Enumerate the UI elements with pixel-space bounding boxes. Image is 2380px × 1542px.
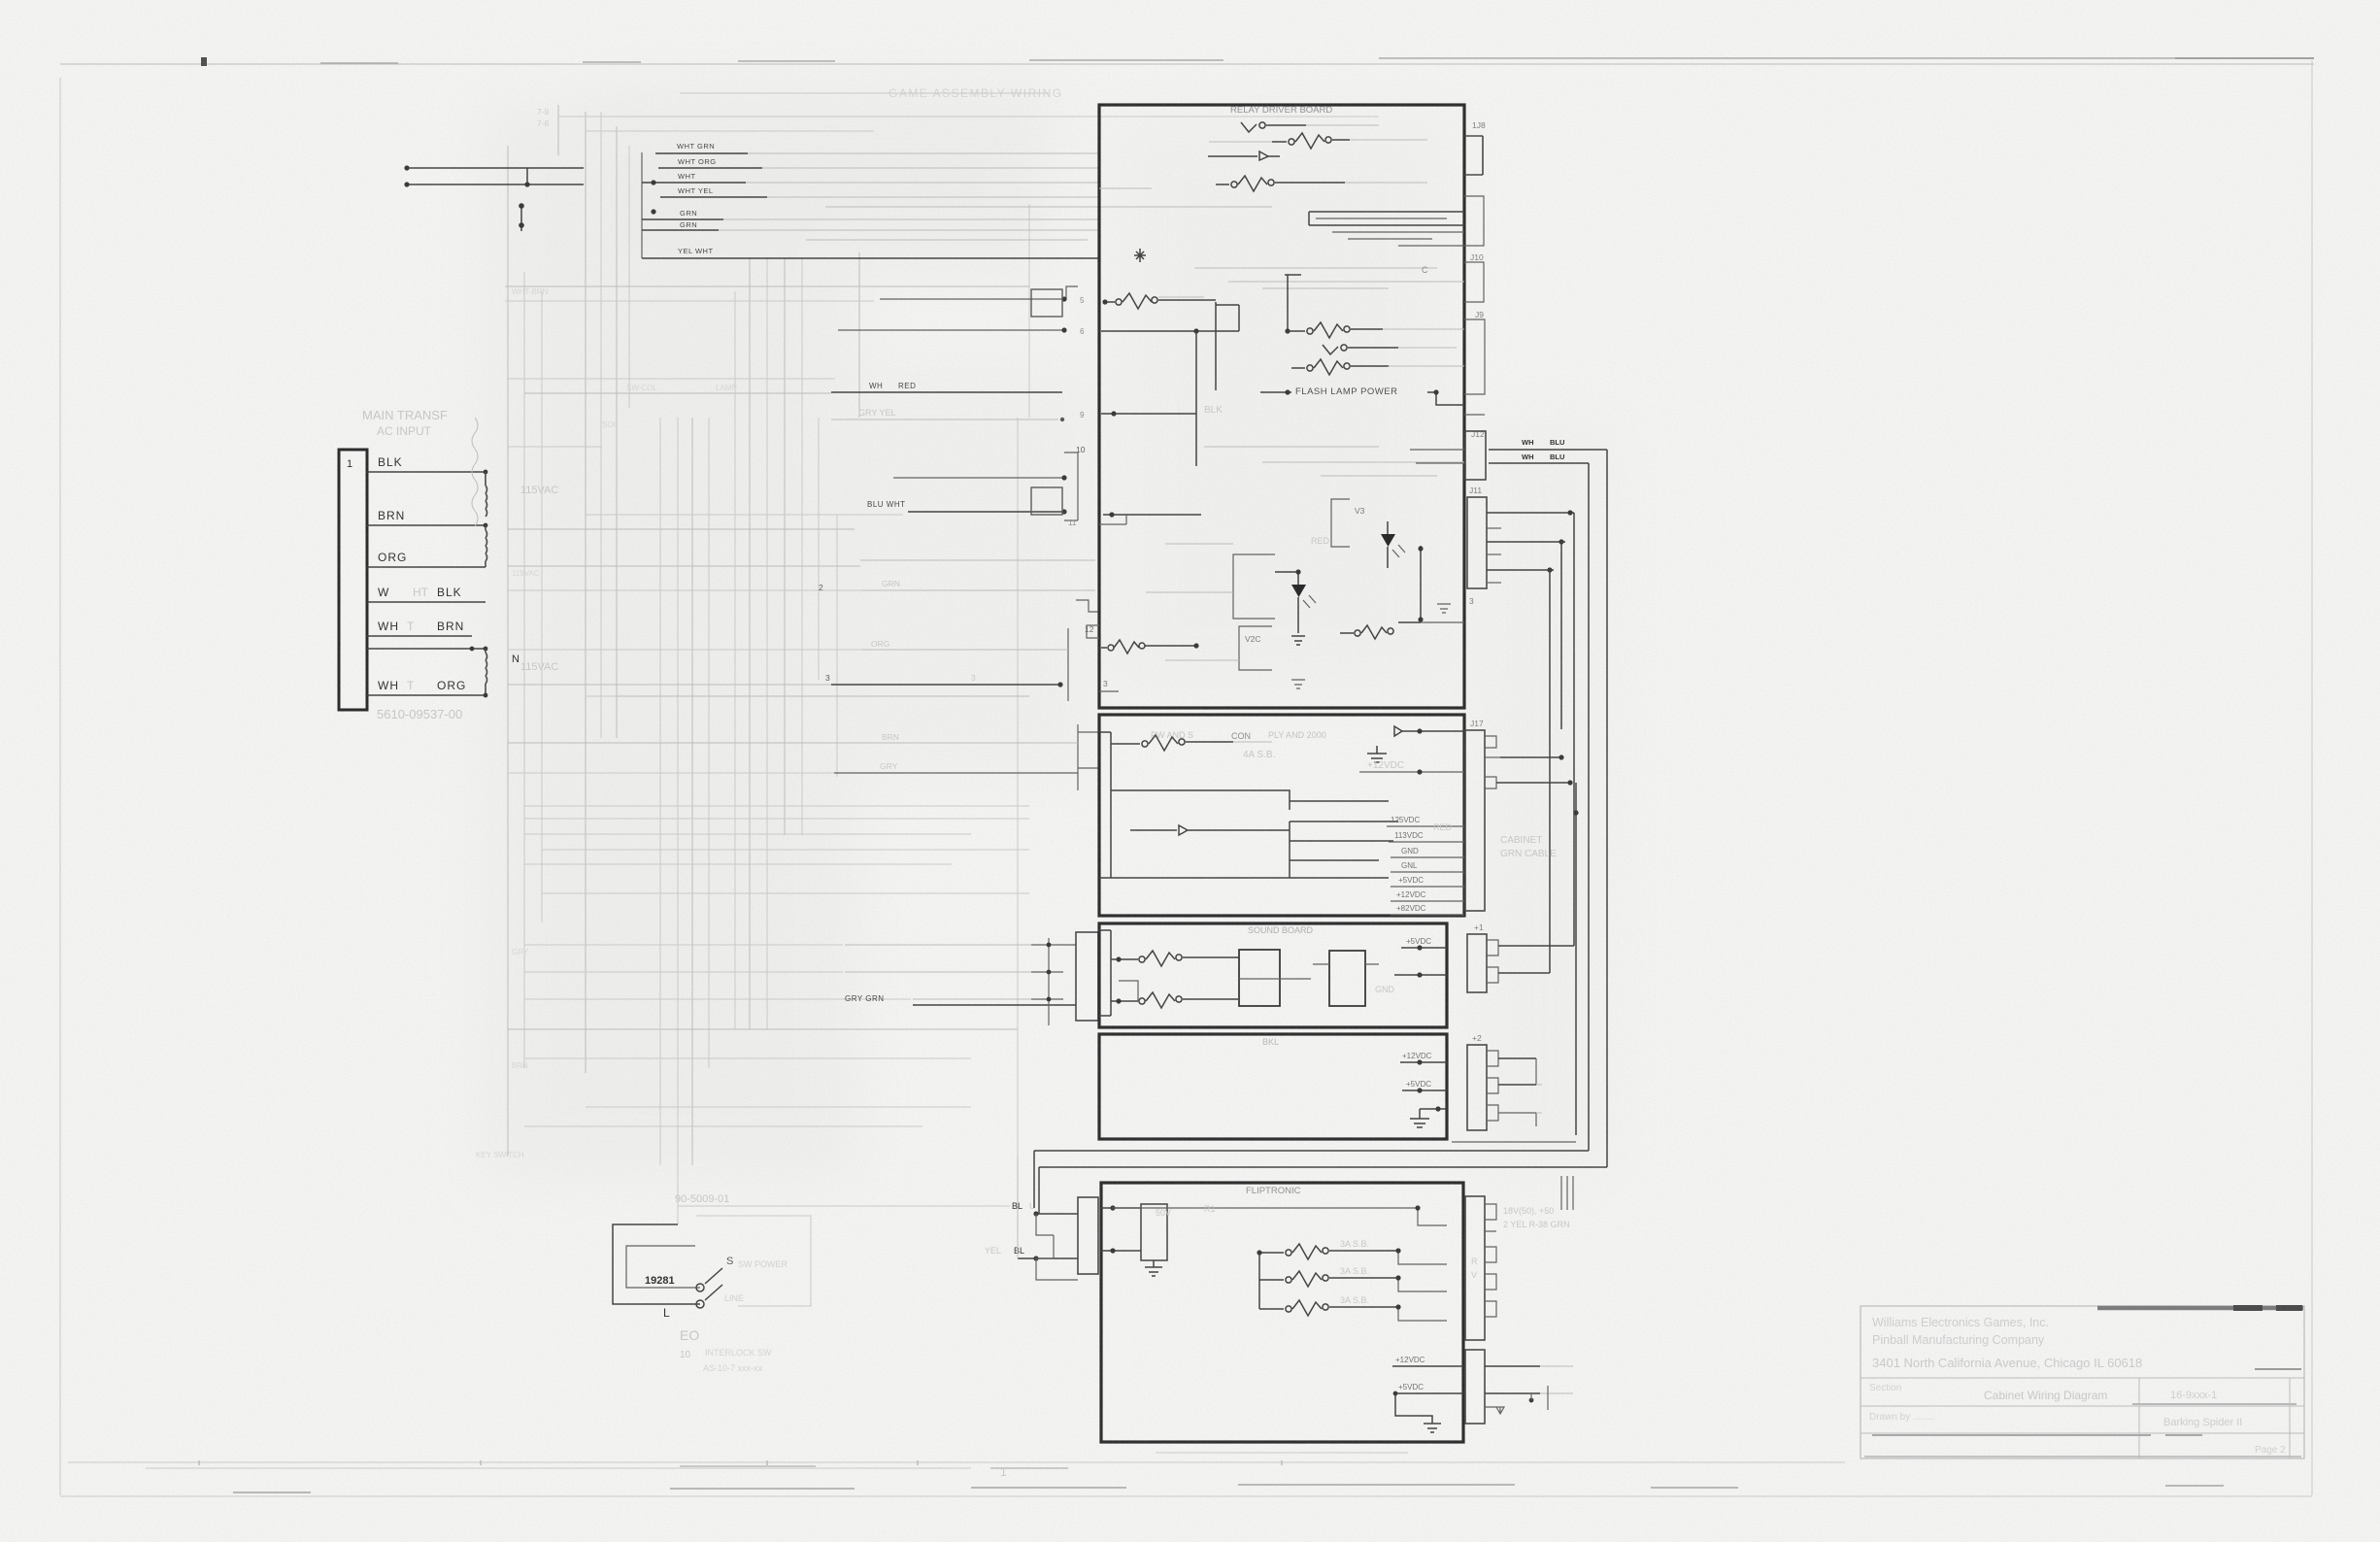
vertical node at right [1420, 546, 1422, 622]
left rail [1099, 732, 1111, 878]
J17 hook pins [1485, 736, 1496, 748]
left rail stub [1099, 930, 1111, 1016]
fuse F10 [1139, 956, 1145, 962]
fliptronic right connector [1465, 1196, 1485, 1340]
arrow pin [1394, 726, 1464, 736]
fuse F5 [1323, 345, 1338, 354]
border top line [60, 63, 2314, 65]
fuse F11 [1139, 998, 1145, 1004]
board boxes [1087, 105, 1464, 1442]
faint vertical from top [1017, 1156, 1019, 1258]
LED V3 bracket [1331, 499, 1350, 547]
wire row into opto [1103, 514, 1201, 516]
faint right extensions [1540, 1366, 1573, 1393]
ground G4 [1367, 746, 1387, 762]
row line 3 [1860, 1432, 2304, 1434]
fuse F4 [1288, 330, 1305, 332]
fuse bus vertical [1258, 1253, 1260, 1309]
bridge rect B1 [1239, 950, 1280, 1006]
ground G2 [1437, 604, 1451, 613]
fuse F2 [1272, 141, 1287, 143]
outer loop wire [613, 1224, 700, 1304]
diode D4 [1130, 825, 1290, 835]
+12V row [1359, 771, 1464, 773]
wire WHT-BLK [367, 601, 486, 603]
fuse F13 [1259, 1279, 1284, 1281]
power driver board U1 outline [1099, 105, 1464, 708]
small stub [1099, 515, 1126, 524]
cross symbol [1134, 249, 1146, 262]
connector J8 [1464, 136, 1483, 175]
branch tee [1285, 275, 1301, 331]
interlock switch [613, 1193, 811, 1373]
vertical run outer [1606, 450, 1608, 1167]
fuse F12 [1259, 1252, 1284, 1254]
vertical run inner [1588, 463, 1590, 1151]
junction into rows [1111, 877, 1290, 879]
faint bus grid [476, 105, 1078, 1224]
fuse F6 [1307, 365, 1313, 371]
scan tone patches [0, 0, 1, 1]
ground hook G7 [1395, 1393, 1432, 1424]
right side routing [1034, 120, 1607, 1424]
faint rows mid [860, 559, 1095, 561]
wire WHT-BRN [367, 635, 472, 637]
border tick mark [201, 57, 207, 66]
left-of-board wires [819, 286, 1099, 1280]
power supply board U3 outline [1099, 715, 1464, 916]
J11 pin wires [1487, 512, 1574, 514]
fliptronic board U6 outline [1101, 1183, 1463, 1442]
lower-left entering wires [1101, 413, 1196, 415]
hook wires around connector [1036, 1214, 1078, 1280]
opto rect U2 [1233, 554, 1275, 619]
row line 1 [1860, 1377, 2304, 1379]
cpu board U5 outline [1099, 1034, 1447, 1139]
entry wires [1101, 1207, 1141, 1209]
vertical drops [1573, 513, 1575, 946]
switch S1 lower contact [696, 1300, 704, 1308]
faint enclosure right [696, 1216, 811, 1306]
bracket into box mid [1076, 600, 1099, 612]
ground G1 [1291, 636, 1305, 645]
fuse F8 [1101, 647, 1107, 649]
ground G6 [1145, 1260, 1162, 1276]
continuation squiggle [472, 418, 478, 526]
wire hook into J3 [880, 286, 1078, 299]
title block [1860, 1306, 2304, 1458]
diode triangle D2 [1381, 534, 1395, 547]
switch S1 upper contact [696, 1284, 704, 1291]
bottom return lines above fliptronic [1491, 1150, 1589, 1152]
wire BRN [367, 524, 486, 526]
box2 left connector [1077, 724, 1079, 790]
continuation drop [1575, 783, 1577, 1135]
output line bundle [1309, 212, 1464, 225]
wire row 2 [1111, 790, 1389, 810]
resistor R1 [1116, 299, 1122, 305]
faint long lines into board [680, 93, 1379, 117]
faint bottom line [68, 1461, 1845, 1463]
node vertical V1 [1215, 302, 1217, 390]
diode D1 arrow [1208, 151, 1280, 160]
left stub rect [1087, 625, 1099, 638]
secondary coil [486, 649, 487, 695]
paper texture overlay [0, 0, 1, 1]
wire ORG [367, 566, 486, 568]
connector J4 bracket [1067, 628, 1069, 701]
box3 left connector column [1048, 938, 1050, 1025]
wire BLK [367, 471, 486, 473]
border right line [2311, 60, 2313, 1495]
cap rect B2 [1329, 951, 1365, 1006]
fuse F1 [1241, 122, 1257, 132]
vertical bus lines [507, 146, 509, 1156]
fuse F9 [1111, 743, 1140, 745]
vertical drop from row [1195, 331, 1197, 466]
ground G3 [1291, 680, 1305, 688]
fuse F14 [1259, 1308, 1284, 1310]
border bottom line [60, 1495, 2312, 1497]
box5 left connector [1078, 1197, 1098, 1274]
wire into J6 pin a [893, 477, 1064, 479]
top wire labels [404, 93, 1379, 258]
dark smudge top [2097, 1306, 2303, 1311]
junction dots column [520, 204, 522, 231]
vertical divider [2138, 1378, 2140, 1458]
fuse F3 [1216, 184, 1229, 185]
row line 2 [1860, 1405, 2304, 1407]
wire N [367, 648, 486, 650]
junction pair top-left [406, 168, 584, 184]
fuse F7 [1355, 630, 1360, 636]
title block outline [1860, 1306, 2304, 1458]
label bus vertical [641, 152, 643, 258]
horizontal bus lines [558, 116, 1029, 117]
driver board U4 outline [1099, 923, 1447, 1027]
border left line [59, 78, 61, 1495]
opto lower rect V20 [1239, 626, 1272, 670]
wire row mid [1101, 330, 1239, 332]
primary coil bottom [486, 525, 487, 567]
ground G7 [1424, 1424, 1441, 1432]
wire WHT-ORG [367, 694, 486, 696]
fliptronic lower right connector [1465, 1350, 1485, 1424]
ground G5 [1410, 1109, 1429, 1127]
connector J1 body [339, 450, 367, 710]
connector J6 bracket [1064, 453, 1078, 520]
out row 2 [1394, 974, 1447, 976]
wire row 2 [838, 329, 1064, 331]
small connector rects left of box1 [1031, 289, 1062, 317]
faint rows upper [1194, 268, 1464, 288]
inner loop wire [626, 1246, 700, 1288]
inner rect K1 [1141, 1204, 1167, 1260]
faint continuation right [1536, 1085, 1542, 1113]
primary coil top [486, 472, 487, 517]
node vertical V2 [1238, 305, 1240, 331]
transformer connector [339, 408, 558, 721]
diode triangle D3 [1291, 585, 1306, 597]
long wire to right [1113, 1208, 1447, 1225]
